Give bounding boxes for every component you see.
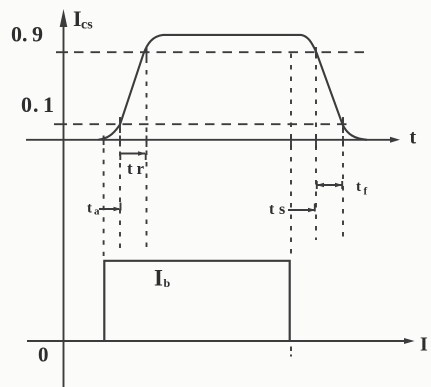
svg-text:I: I [154,266,163,291]
axis crossing tick at x=291 [290,135,292,147]
dashed vertical at 0.1 rise crossing [119,117,121,255]
tf measure arrow [317,181,343,189]
tr measure arrow [120,151,146,160]
svg-text:0: 0 [38,343,49,367]
0.1 level dashed line [54,123,352,125]
y-axis arrowhead [60,9,68,27]
svg-text:cs: cs [81,18,93,33]
0.1 crossing tick on rise [119,119,121,131]
svg-text:a: a [94,206,100,218]
axis crossing tick at x=120 [119,136,121,147]
collector current waveform curve [99,35,368,140]
t-axis (upper time axis) [26,139,392,141]
svg-text:0.1: 0.1 [21,92,54,117]
axis crossing tick at x=103.6 [103,136,105,146]
svg-text:t: t [87,201,92,217]
svg-text:t: t [410,127,417,149]
svg-text:0.9: 0.9 [11,22,43,47]
axis crossing tick at x=343 [342,136,344,147]
base current pulse Ib [104,261,289,341]
0.9 crossing tick on rise [146,47,148,59]
tick below lower axis at pulse end [290,347,292,357]
dashed vertical at 0.9 rise crossing [146,47,148,252]
0.9 crossing tick on fall [315,47,317,59]
svg-text:f: f [364,186,368,198]
svg-text:b: b [164,276,171,290]
0.9 level dashed line [56,51,368,53]
dashed vertical at pulse end [290,54,292,260]
y-axis (current axis) [63,22,65,387]
dashed vertical at 0.9 fall crossing [315,54,317,241]
0.1 crossing tick on fall [342,119,344,131]
td measure arrow [99,203,121,212]
lower axis arrowhead [404,338,415,344]
svg-text:tr: tr [127,159,145,178]
svg-text:I: I [420,334,428,356]
dashed vertical at 0.1 fall crossing [342,117,344,240]
axis crossing tick at x=316 [315,135,317,149]
ts measure arrow [288,204,316,213]
axis crossing tick at x=146.5 [146,136,148,148]
lower time axis [27,340,406,342]
dashed vertical at pulse start (t0) [103,137,105,256]
t-axis arrowhead [390,137,400,143]
svg-text:t: t [356,179,361,195]
